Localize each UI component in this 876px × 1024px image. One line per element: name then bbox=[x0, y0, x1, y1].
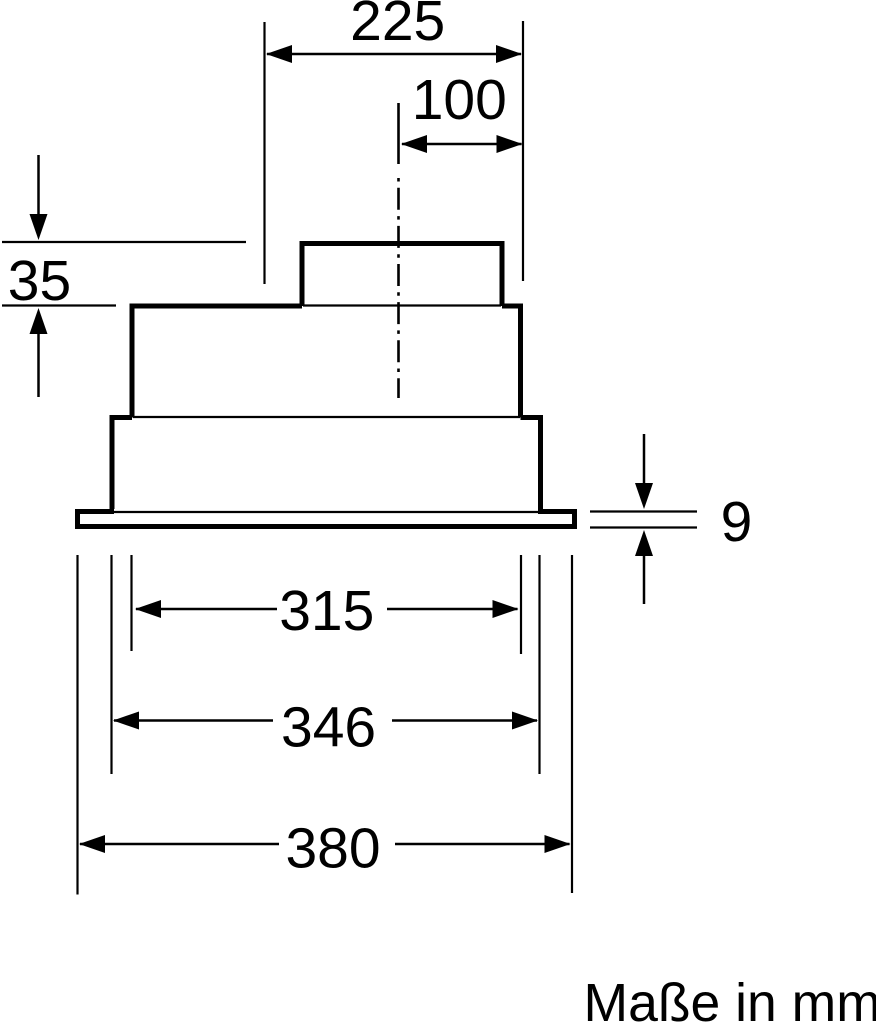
flange top edge (thin, under body) bbox=[112, 511, 540, 513]
dimension 100 line bbox=[402, 143, 522, 146]
hood outline: duct (top rectangle) bbox=[302, 244, 502, 307]
dimension 9 up arrow bbox=[643, 552, 646, 604]
dimension 346 label bbox=[273, 696, 392, 760]
dimension 346 left arrowhead bbox=[113, 712, 139, 730]
dimension 100 left arrowhead bbox=[401, 135, 427, 153]
dimension 225 line bbox=[267, 53, 521, 56]
extension line: 315 left bbox=[130, 555, 132, 651]
extension line: 346 left bbox=[110, 555, 112, 774]
extension line: 380 right bbox=[571, 555, 573, 893]
third step top edge (thin, between step sides) bbox=[133, 416, 520, 418]
extension line: 315 right bbox=[520, 555, 522, 654]
svg-text:9: 9 bbox=[721, 490, 753, 554]
svg-text:Maße in mm: Maße in mm bbox=[584, 974, 876, 1024]
dimension 9 lower reference line bbox=[590, 526, 697, 528]
center line (dash-dot) bbox=[397, 103, 400, 164]
dimension 346 right arrowhead bbox=[512, 712, 538, 730]
svg-text:100: 100 bbox=[412, 68, 507, 132]
extension line: 380 left bbox=[76, 555, 78, 895]
dimension 9 upper reference line bbox=[590, 510, 697, 512]
dimension 315 line bbox=[136, 608, 518, 611]
dimension 35 lower reference line bbox=[2, 304, 116, 306]
svg-text:35: 35 bbox=[8, 249, 71, 313]
svg-text:380: 380 bbox=[285, 817, 380, 881]
svg-text:346: 346 bbox=[281, 696, 376, 760]
second step top edge (thin, behind duct) bbox=[303, 304, 501, 306]
dimension 315 left arrowhead bbox=[135, 600, 161, 618]
extension line: 346 right bbox=[538, 555, 540, 774]
dimension 380 line bbox=[80, 843, 570, 846]
dimension 380 label bbox=[279, 817, 395, 881]
dimension 35 down arrow bbox=[37, 155, 40, 218]
dimension 35 upper reference line bbox=[2, 241, 246, 243]
dimension 380 left arrowhead bbox=[79, 835, 105, 853]
dimension 35 up arrow bbox=[37, 333, 40, 397]
extension line: 225/100 right bbox=[522, 21, 524, 281]
dimension 225 right arrowhead bbox=[496, 45, 522, 63]
dimension 315 label bbox=[277, 579, 387, 643]
svg-text:315: 315 bbox=[279, 579, 374, 643]
dimension 380 right arrowhead bbox=[545, 835, 571, 853]
dimension 100 right arrowhead bbox=[497, 135, 523, 153]
extension line: 225 left bbox=[263, 22, 265, 284]
bottom flange plate bbox=[78, 512, 575, 527]
hood outline: third step (lower body) bbox=[112, 418, 541, 510]
dimension 315 right arrowhead bbox=[493, 600, 519, 618]
dimension 9 down arrow bbox=[643, 434, 646, 487]
dimension 225 left arrowhead bbox=[266, 45, 292, 63]
hood outline: second step (middle body) bbox=[132, 306, 521, 418]
svg-text:225: 225 bbox=[350, 0, 445, 53]
dimension 346 line bbox=[114, 719, 537, 722]
